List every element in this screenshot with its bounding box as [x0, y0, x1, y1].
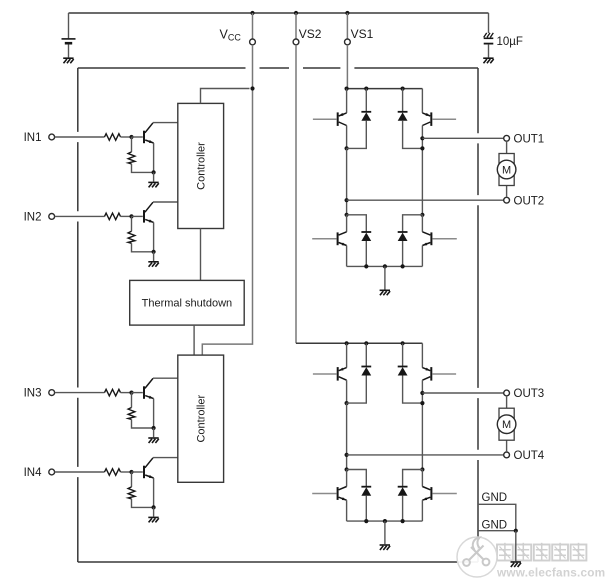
wire: [121, 215, 132, 217]
transistor Q8 (NPN low-side): [422, 232, 431, 246]
wire OUT3 node: [421, 380, 423, 469]
junction: [364, 519, 368, 523]
wire: [421, 89, 423, 113]
svg-text:M: M: [502, 165, 511, 177]
motor M between OUT3 and OUT4: [497, 396, 516, 452]
junction VS2/rail: [294, 11, 298, 15]
wire: [403, 121, 423, 149]
wire: [402, 89, 404, 112]
junction: [420, 213, 424, 217]
motor M between OUT1 and OUT2: [497, 141, 516, 197]
transistor Q7 (NPN low-side): [338, 232, 347, 246]
junction VCC/U1: [250, 86, 254, 90]
transistor Q2: [144, 202, 154, 222]
junction: [420, 146, 424, 150]
wire: [421, 343, 423, 367]
wire: [346, 215, 348, 232]
wire: [68, 13, 70, 38]
wire: [403, 470, 423, 487]
junction: [345, 341, 349, 345]
junction: [420, 467, 424, 471]
diode D2: [398, 112, 408, 121]
wire: [346, 470, 348, 487]
wire to ground: [384, 266, 386, 289]
wire: [421, 470, 423, 487]
wire: [121, 392, 132, 394]
wire: [347, 215, 367, 232]
wire: [313, 118, 337, 120]
terminal OUT1: [504, 135, 510, 141]
wire IN3 input: [55, 392, 105, 394]
wire: [131, 137, 133, 152]
wire: [402, 496, 404, 521]
wire GND pin 1: [478, 504, 516, 530]
terminal VCC: [250, 39, 256, 45]
wire VCC feed to controllers: [202, 45, 252, 355]
junction: [345, 87, 349, 91]
junction: [420, 401, 424, 405]
junction: [152, 170, 156, 174]
svg-text:www.elecfans.com: www.elecfans.com: [496, 566, 605, 580]
wire emitter: [153, 399, 155, 428]
wire: [432, 238, 456, 240]
junction: [401, 87, 405, 91]
wire: [312, 493, 336, 495]
svg-text:IN4: IN4: [24, 467, 43, 479]
transistor Q1: [144, 123, 154, 143]
wire: [131, 393, 133, 408]
wire GND to ground: [515, 531, 517, 562]
node OUT3: [420, 391, 424, 395]
svg-text:IN3: IN3: [24, 388, 42, 400]
wire: [421, 500, 423, 521]
wire: [131, 216, 133, 231]
resistor R6: [128, 408, 135, 420]
transistor Q3: [144, 378, 154, 398]
ground: [63, 58, 73, 63]
svg-text:OUT3: OUT3: [514, 388, 545, 400]
wire to ground: [153, 172, 155, 181]
wire base: [132, 136, 143, 138]
watermark logo elecfans: [457, 537, 497, 577]
diode D6: [398, 367, 408, 376]
junction: [152, 505, 156, 509]
diode D8: [398, 487, 408, 496]
wire: [346, 13, 348, 39]
svg-text:GND: GND: [482, 519, 508, 531]
wire IN1 input: [55, 136, 105, 138]
wire: [132, 164, 154, 173]
wire: [346, 380, 348, 403]
junction: [345, 213, 349, 217]
ground: [148, 438, 159, 443]
wire base: [132, 392, 143, 394]
resistor R8: [128, 487, 135, 499]
wire: [402, 241, 404, 266]
wire VCC/VS supply rail: [69, 12, 489, 14]
wire: [121, 136, 132, 138]
svg-text:VS1: VS1: [351, 27, 374, 41]
wire: [421, 215, 423, 232]
wire: [347, 376, 367, 404]
transistor Q9 (PNP high-side): [338, 367, 347, 381]
wire U1 to thermal shutdown: [200, 229, 202, 281]
wire GND pin 2: [478, 530, 516, 532]
wire to ground: [153, 252, 155, 261]
wire: [346, 246, 348, 267]
wire bridge ground rail: [347, 265, 423, 267]
terminal IN2: [49, 214, 55, 220]
svg-text:IN2: IN2: [24, 212, 42, 224]
wire to ground: [153, 507, 155, 516]
wire Q3 collector to controller: [153, 377, 178, 379]
wire Q4 collector to controller: [153, 457, 178, 459]
transistor Q6 (PNP high-side): [422, 112, 431, 126]
svg-text:Thermal shutdown: Thermal shutdown: [142, 298, 233, 310]
ground: [483, 58, 494, 63]
wire: [432, 373, 456, 375]
wire: [347, 121, 367, 149]
wire to OUT4: [347, 454, 504, 456]
wire base: [132, 215, 143, 217]
wire: [295, 13, 297, 39]
wire bridge ground rail: [347, 520, 423, 522]
wire: [432, 118, 456, 120]
junction: [345, 146, 349, 150]
wire thermal to U2: [193, 325, 195, 355]
svg-text:M: M: [502, 419, 511, 431]
wire: [403, 215, 423, 232]
capacitor C1: [62, 39, 76, 43]
junction VS1/rail: [345, 11, 349, 15]
ground: [380, 290, 391, 295]
wire bridge rail VS: [296, 342, 422, 344]
wire: [252, 13, 254, 39]
wire: [346, 500, 348, 521]
wire: [432, 493, 456, 495]
wire emitter: [153, 222, 155, 251]
terminal OUT2: [504, 197, 510, 203]
terminal VS2: [293, 39, 299, 45]
wire: [365, 496, 367, 521]
svg-text:GND: GND: [482, 492, 508, 504]
wire VS2 down to bridge 2: [295, 45, 297, 344]
junction: [383, 264, 387, 268]
svg-text:OUT4: OUT4: [514, 450, 545, 462]
wire OUT1 node: [421, 126, 423, 215]
wire: [402, 343, 404, 366]
device outline box: [78, 68, 478, 562]
wire: [346, 89, 348, 113]
transistor Q4: [144, 458, 154, 478]
resistor R1: [105, 134, 121, 141]
node OUT4: [345, 453, 349, 457]
wire: [132, 243, 154, 252]
wire: [121, 471, 132, 473]
wire: [347, 470, 367, 487]
terminal IN3: [49, 390, 55, 396]
wire emitter: [153, 478, 155, 507]
wire IN4 input: [55, 471, 105, 473]
wire: [346, 343, 348, 367]
wire base: [132, 471, 143, 473]
diode D3: [361, 232, 371, 241]
svg-text:VS2: VS2: [299, 27, 322, 41]
transistor Q10 (PNP high-side): [422, 367, 431, 381]
wire to ground: [153, 428, 155, 437]
wire U1 supply: [201, 89, 250, 104]
wire: [346, 126, 348, 149]
svg-text:Controller: Controller: [196, 142, 208, 190]
wire emitter: [153, 143, 155, 172]
wire: [488, 13, 490, 33]
wire: [131, 472, 133, 487]
transistor Q5 (PNP high-side): [338, 112, 347, 126]
diode D4: [398, 232, 408, 241]
ground: [511, 562, 522, 567]
wire: [365, 343, 367, 366]
node IN4 base: [129, 470, 133, 474]
wire: [421, 246, 423, 267]
svg-text:OUT1: OUT1: [514, 133, 545, 145]
junction GND: [514, 529, 518, 533]
terminal OUT4: [504, 452, 510, 458]
node IN1 base: [129, 135, 133, 139]
ground: [380, 545, 391, 550]
node IN2 base: [129, 214, 133, 218]
diode D1: [361, 112, 371, 121]
wire to OUT1: [422, 137, 503, 139]
wire IN2 input: [55, 215, 105, 217]
wire OUT2 node: [346, 148, 348, 214]
transistor Q12 (NPN low-side): [422, 487, 431, 501]
resistor R3: [105, 213, 121, 220]
node OUT2: [345, 198, 349, 202]
op-amp U1 Controller: [178, 103, 224, 228]
junction: [364, 264, 368, 268]
junction: [401, 264, 405, 268]
junction: [345, 401, 349, 405]
diode D5: [361, 367, 371, 376]
wire to OUT2: [347, 199, 504, 201]
wire OUT4 node: [346, 403, 348, 469]
wire: [313, 373, 337, 375]
terminal IN4: [49, 469, 55, 475]
resistor R4: [128, 231, 135, 243]
wire: [365, 241, 367, 266]
transistor Q11 (NPN low-side): [338, 487, 347, 501]
junction: [364, 87, 368, 91]
wire to OUT3: [422, 392, 503, 394]
wire: [68, 44, 70, 57]
junction VCC/rail: [250, 11, 254, 15]
terminal VS1: [345, 39, 351, 45]
terminal OUT3: [504, 390, 510, 396]
wire: [488, 45, 490, 58]
wire to ground: [384, 521, 386, 544]
diode D7: [361, 487, 371, 496]
junction: [152, 426, 156, 430]
resistor R2: [128, 152, 135, 164]
svg-text:10µF: 10µF: [497, 36, 523, 48]
svg-text:IN1: IN1: [24, 132, 42, 144]
wire Q2 collector to controller: [153, 201, 178, 203]
junction: [401, 341, 405, 345]
resistor R5: [105, 389, 121, 396]
thermal shutdown block U3: [130, 280, 245, 325]
junction: [383, 519, 387, 523]
ground: [148, 517, 159, 522]
capacitor C2 10µF: [484, 33, 494, 44]
wire VS1 down to bridge 1: [346, 45, 348, 89]
wire: [365, 89, 367, 112]
wire: [312, 238, 336, 240]
junction: [401, 519, 405, 523]
svg-text:OUT2: OUT2: [514, 195, 545, 207]
junction: [345, 467, 349, 471]
wire bridge rail VS: [347, 88, 423, 90]
wire: [132, 420, 154, 429]
wire Q1 collector to controller: [153, 122, 178, 124]
terminal IN1: [49, 134, 55, 140]
ground: [148, 182, 159, 187]
ground: [148, 262, 159, 267]
svg-text:Controller: Controller: [196, 395, 208, 443]
node IN3 base: [129, 391, 133, 395]
wire: [132, 499, 154, 508]
node OUT1: [420, 136, 424, 140]
op-amp U2 Controller: [178, 355, 224, 482]
resistor R7: [105, 469, 121, 476]
wire: [403, 376, 423, 404]
junction: [364, 341, 368, 345]
watermark text elecfans: [497, 543, 586, 561]
junction: [152, 250, 156, 254]
